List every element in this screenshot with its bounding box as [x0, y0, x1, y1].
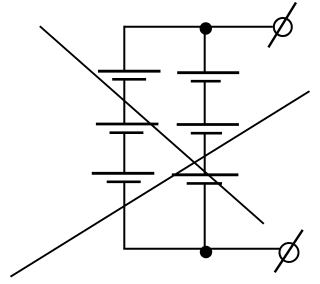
battery cell B5 (right middle): [177, 125, 239, 134]
wire right branch segment 2: [204, 81, 206, 124]
wire top bus: [124, 26, 272, 28]
wire left branch segment 1: [123, 26, 125, 71]
terminal T2 (bottom right): [275, 230, 303, 272]
battery cell B3 (left bottom): [92, 173, 155, 182]
battery cell B2 (left middle): [96, 124, 158, 133]
cross-out line 2 (lower-left to upper-right): [11, 91, 310, 277]
wire left branch segment 2: [123, 79, 125, 124]
cross-out line 1 (upper-left to lower-right): [40, 26, 264, 224]
wire right branch segment 3: [204, 133, 206, 175]
wire right branch segment 1: [204, 27, 206, 73]
wire right branch segment 4: [204, 183, 206, 248]
junction top node: [200, 22, 212, 34]
terminal T1 (top right): [268, 3, 296, 48]
battery cell B4 (right top): [177, 73, 239, 82]
battery cell B1 (left top): [98, 71, 161, 79]
wire bottom bus: [123, 248, 279, 250]
wire left branch segment 3: [123, 133, 125, 174]
junction bottom node: [200, 246, 212, 258]
wire left branch segment 4: [123, 182, 125, 249]
battery cell B6 (right bottom): [172, 175, 239, 184]
